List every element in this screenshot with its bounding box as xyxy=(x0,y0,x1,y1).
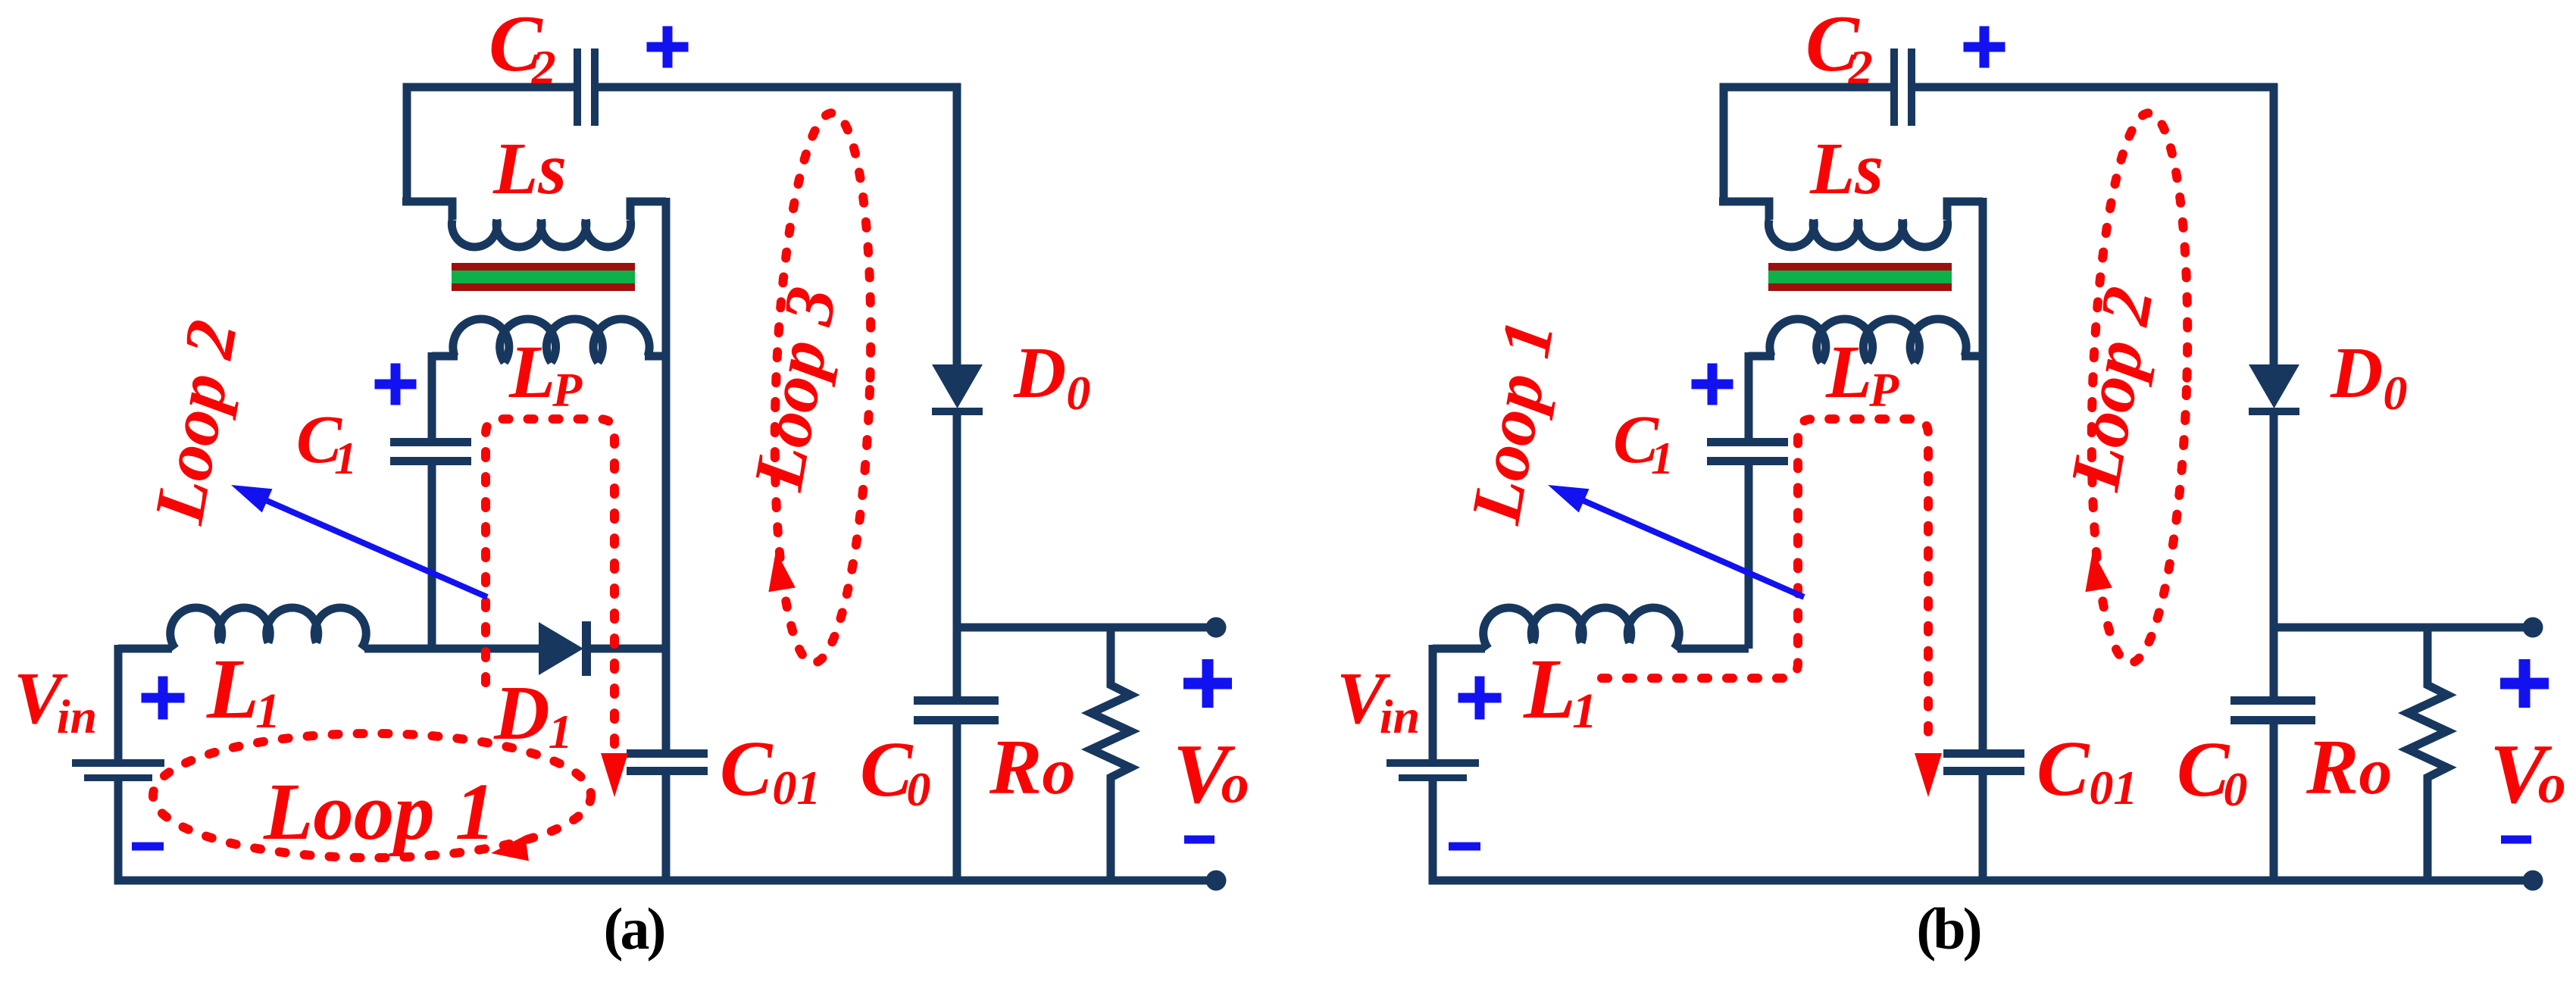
wire D0 anode vertical (a) xyxy=(953,83,961,364)
svg-text:Ls: Ls xyxy=(492,128,567,209)
loop 1 dashed ellipse (a) xyxy=(153,733,591,858)
diode D0 cathode bar (a) xyxy=(932,408,983,415)
diode D0 triangle (b) xyxy=(2249,364,2299,408)
blue arrow to Loop 2 (a) xyxy=(246,492,487,597)
voltage source Vin bottom plate (a) xyxy=(84,774,152,781)
minus sign output (b) xyxy=(2501,836,2531,844)
inductor Lp coil (a) xyxy=(453,319,649,362)
output node bottom dot (b) xyxy=(2523,871,2543,891)
minus sign Vin (b) xyxy=(1449,843,1480,851)
transformer core top bar (b) xyxy=(1768,263,1952,271)
capacitor C0 top plate (b) xyxy=(2231,696,2315,705)
wire right vertical Ls-Lp-C01 (a) xyxy=(662,198,671,749)
loop 3 arrow (a) xyxy=(768,551,796,592)
transformer core top bar (a) xyxy=(452,263,635,271)
wire D0 cathode vertical (a) xyxy=(953,415,961,696)
loop 1 dashed arrow (b) xyxy=(1915,753,1942,797)
inductor Lp entry right (b) xyxy=(1962,352,1983,361)
capacitor C0 bottom plate (a) xyxy=(914,716,999,724)
inductor Ls entry right (b) xyxy=(1947,202,1983,220)
wire bottom rail (a) xyxy=(114,877,1217,885)
transformer core green bar (a) xyxy=(452,271,635,283)
voltage source Vin wire upper (b) xyxy=(1429,645,1437,759)
loop 1 arrow (a) xyxy=(491,836,529,862)
capacitor C1 bottom plate (a) xyxy=(390,457,471,465)
capacitor C2 left plate (a) xyxy=(574,48,581,126)
plus sign output (a) xyxy=(1183,659,1232,708)
inductor Lp coil (b) xyxy=(1770,319,1966,362)
inductor Lp entry left (a) xyxy=(432,352,458,361)
wire right vertical below C01 (a) xyxy=(662,774,671,880)
circuit (b) xyxy=(1336,0,2566,962)
wire C1 upper (a) xyxy=(428,352,436,438)
plus sign C1 (b) xyxy=(1692,364,1733,405)
inductor Ls coil (a) xyxy=(452,220,630,247)
voltage source Vin bottom plate (b) xyxy=(1399,774,1467,781)
inductor Ls entry left (a) xyxy=(402,202,452,220)
inductor Ls coil (b) xyxy=(1768,220,1947,247)
transformer core green bar (b) xyxy=(1768,271,1952,283)
resistor Ro (a) xyxy=(1091,627,1130,880)
loop 2 dashed arrow (a) xyxy=(601,753,628,797)
wire output top (a) xyxy=(957,624,1216,632)
capacitor C0 bottom plate (b) xyxy=(2231,716,2315,724)
plus sign C1 (a) xyxy=(375,364,417,405)
circuit (a) xyxy=(14,0,1249,962)
plus sign top (a) xyxy=(647,27,689,68)
wire D0 cathode vertical (b) xyxy=(2270,415,2278,696)
diode D1 triangle (a) xyxy=(539,622,583,675)
plus sign top (b) xyxy=(1964,27,2005,68)
wire top-left C2 loop (a) xyxy=(407,87,574,205)
loop 2 dashed ellipse (b) xyxy=(2083,111,2196,665)
voltage source Vin wire lower (b) xyxy=(1429,781,1437,880)
svg-text:(a): (a) xyxy=(604,896,664,962)
inductor Lp entry right (a) xyxy=(645,352,666,361)
wire L1-to-C1 riser (b) xyxy=(1677,645,1749,653)
wire top-left C2 loop (b) xyxy=(1724,87,1890,205)
transformer core bottom bar (a) xyxy=(452,283,635,291)
wire D0 anode vertical (b) xyxy=(2270,83,2278,364)
inductor Lp entry left (b) xyxy=(1749,352,1774,361)
capacitor C1 top plate (b) xyxy=(1707,438,1788,446)
wire bottom rail (b) xyxy=(1429,877,2534,885)
diode D0 cathode bar (b) xyxy=(2249,408,2299,415)
capacitor C2 right plate (a) xyxy=(591,48,599,126)
voltage source Vin top plate (b) xyxy=(1386,759,1479,767)
inductor L1 coil (b) xyxy=(1483,608,1680,649)
plus sign output (b) xyxy=(2500,659,2549,708)
inductor L1 coil (a) xyxy=(170,608,367,649)
voltage source Vin top plate (a) xyxy=(72,759,164,767)
output node top dot (a) xyxy=(1206,618,1227,638)
loop 2 dashed rectangle (a) xyxy=(486,419,614,746)
output node bottom dot (a) xyxy=(1206,871,1227,891)
loop 2 arrow (b) xyxy=(2085,551,2112,592)
transformer core bottom bar (b) xyxy=(1768,283,1952,291)
capacitor C01 top plate (b) xyxy=(1943,749,2024,758)
capacitor C2 left plate (b) xyxy=(1890,48,1898,126)
wire L1-to-D1 (a) xyxy=(364,645,539,653)
voltage source Vin wire upper (a) xyxy=(114,645,123,759)
wire below C0 (a) xyxy=(953,724,961,880)
plus sign Vin (a) xyxy=(142,677,185,720)
wire below C0 (b) xyxy=(2270,724,2278,880)
capacitor C01 bottom plate (b) xyxy=(1943,767,2024,775)
wire top C2-to-D0 (a) xyxy=(599,83,961,92)
capacitor C1 top plate (a) xyxy=(390,438,471,446)
wire output top (b) xyxy=(2274,624,2533,632)
wire L1 left (a) xyxy=(118,645,172,653)
capacitor C2 right plate (b) xyxy=(1908,48,1915,126)
wire C1 lower (b) xyxy=(1745,465,1753,649)
wire right vertical Ls-Lp-C01 (b) xyxy=(1979,198,1987,749)
svg-text:Ls: Ls xyxy=(1809,128,1884,209)
blue arrow to Loop 1 (b) xyxy=(1563,492,1804,597)
output node top dot (b) xyxy=(2523,618,2543,638)
loop 1 dashed path (b) xyxy=(1602,419,1928,746)
wire D1-to-node (a) xyxy=(591,645,670,653)
diode D1 cathode bar (a) xyxy=(582,621,591,676)
loop 3 dashed ellipse (a) xyxy=(766,111,879,665)
voltage source Vin wire lower (a) xyxy=(114,781,123,880)
svg-text:Ro: Ro xyxy=(989,724,1075,811)
wire C1 upper (b) xyxy=(1745,352,1753,438)
inductor Ls entry right (a) xyxy=(630,202,666,220)
minus sign Vin (a) xyxy=(132,843,164,851)
minus sign output (a) xyxy=(1184,836,1215,844)
wire top C2-to-D0 (b) xyxy=(1915,83,2277,92)
wire right vertical below C01 (b) xyxy=(1979,774,1987,880)
capacitor C01 bottom plate (a) xyxy=(627,767,708,775)
plus sign Vin (b) xyxy=(1458,677,1502,720)
svg-text:(b): (b) xyxy=(1916,896,1980,962)
diode D0 triangle (a) xyxy=(932,364,983,408)
wire C1 lower (a) xyxy=(428,465,436,652)
svg-text:Loop 1: Loop 1 xyxy=(263,768,496,857)
svg-text:Ro: Ro xyxy=(2306,724,2392,811)
capacitor C1 bottom plate (b) xyxy=(1707,457,1788,465)
capacitor C0 top plate (a) xyxy=(914,696,999,705)
inductor Ls entry left (b) xyxy=(1719,202,1769,220)
capacitor C01 top plate (a) xyxy=(627,749,708,758)
resistor Ro (b) xyxy=(2408,627,2447,880)
wire L1 left (b) xyxy=(1433,645,1485,653)
